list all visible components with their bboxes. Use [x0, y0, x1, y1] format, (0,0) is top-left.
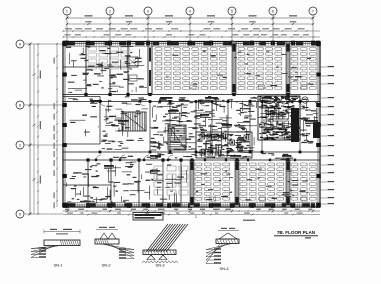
svg-text:B: B: [19, 103, 21, 107]
detail SN-4: [206, 228, 239, 271]
top classroom desk array 1: [155, 48, 227, 91]
drawing title: [274, 230, 318, 239]
bottom classroom desk array 2: [240, 163, 284, 202]
svg-text:4: 4: [189, 9, 191, 13]
svg-text:5: 5: [231, 9, 233, 13]
row bubble A: [16, 40, 63, 48]
left fine dimension chain: [54, 43, 58, 208]
bottom-left annotations: [67, 162, 187, 204]
corridor door jambs: [84, 93, 301, 162]
top-left room annotations: [66, 46, 147, 93]
detail SN-2: [95, 227, 134, 268]
wall window blocks: [63, 42, 320, 206]
mid-right annotations: [234, 101, 257, 153]
grid bubble 6: [269, 7, 277, 42]
wall columns: [62, 41, 321, 208]
svg-text:2: 2: [195, 215, 197, 219]
left room sparse: [68, 99, 99, 137]
corridor labels: [137, 96, 307, 102]
toilet fixtures: [127, 57, 138, 81]
svg-text:1: 1: [66, 9, 68, 13]
grid bubble 1: [63, 7, 71, 42]
detail SN-1: [31, 229, 80, 268]
svg-text:SN-2: SN-2: [101, 263, 111, 268]
svg-text:2: 2: [109, 9, 111, 13]
grid bubble 5: [228, 7, 236, 42]
keynote box under plan: [133, 213, 255, 221]
svg-text:7: 7: [312, 9, 314, 13]
bottom dimension lines: [63, 209, 320, 216]
building outer wall: [63, 42, 320, 208]
lower corridor labels: [113, 153, 293, 160]
room labels: [90, 97, 318, 174]
center annotations: [150, 98, 232, 150]
svg-text:7B. FLOOR PLAN: 7B. FLOOR PLAN: [277, 230, 316, 235]
stair core 1: [122, 112, 146, 131]
detail SN-3: [142, 224, 188, 268]
svg-text:3: 3: [147, 9, 149, 13]
interior walls: [63, 42, 300, 208]
svg-text:6: 6: [272, 9, 274, 13]
left mid annotations: [101, 96, 148, 149]
grid bubble 7: [309, 7, 317, 42]
bottom classroom desk array 3: [291, 163, 317, 202]
right block annotations: [300, 100, 318, 143]
stair core 2: [168, 125, 186, 150]
row bubble B: [16, 101, 63, 109]
top dimension line 1: [66, 15, 315, 19]
grid bubble 4: [186, 7, 194, 42]
top classroom desk array 2: [238, 48, 282, 91]
left dimension chain: [29, 43, 41, 216]
right leader notes: [320, 66, 334, 204]
upper corridor walls: [63, 95, 320, 102]
door arcs: [96, 101, 305, 160]
top band labels: [166, 51, 313, 86]
grid bubble 2: [106, 7, 114, 42]
top dimension line 4: [62, 34, 320, 38]
bottom-middle room tables: [154, 166, 188, 195]
top dimension line 3: [62, 28, 320, 32]
top-left room panels: [88, 47, 130, 69]
central service core: [196, 132, 252, 158]
grid bubble 3: [144, 7, 152, 42]
bottom classroom desk array 1: [195, 163, 230, 202]
row bubble C: [16, 141, 63, 149]
lower corridor walls: [63, 152, 320, 160]
top dimension line 2: [66, 21, 314, 25]
top classroom desk array 3: [291, 48, 317, 91]
svg-text:SN-1: SN-1: [53, 263, 63, 268]
svg-text:SN-4: SN-4: [219, 266, 229, 271]
svg-text:SN-3: SN-3: [155, 263, 165, 268]
right wall dark block: [313, 122, 320, 138]
right mechanical block: [258, 96, 308, 142]
row bubble D: [16, 210, 63, 218]
bottom band labels: [196, 169, 309, 201]
